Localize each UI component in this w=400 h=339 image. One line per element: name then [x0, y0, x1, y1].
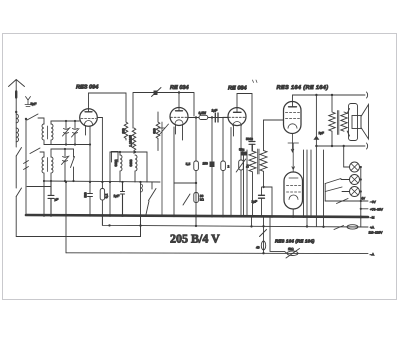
wire plate feed x102	[101, 118, 103, 183]
wire IF2 top	[110, 151, 147, 153]
svg-text:1µF: 1µF	[252, 199, 258, 203]
lamp feed wire	[343, 146, 345, 167]
svg-text:RE 034: RE 034	[170, 85, 190, 91]
svg-text:–M: –M	[370, 216, 375, 220]
cap C5 on y182	[88, 182, 93, 215]
speaker transformer right winding	[341, 112, 347, 131]
bus junction dots	[65, 214, 68, 217]
coil BF2 primary	[42, 157, 44, 181]
core BF1	[47, 126, 49, 139]
wire 4V	[325, 200, 368, 202]
wire bottom band1	[44, 144, 90, 146]
resistor R on y182	[101, 182, 103, 189]
tube RES094 plate wire	[97, 117, 102, 119]
variable capacitor C3	[62, 149, 70, 181]
wire band2 top	[51, 148, 65, 150]
RE084 top cap wire	[237, 94, 252, 142]
wire sec to x272	[262, 186, 264, 188]
svg-text:RES 094: RES 094	[76, 85, 99, 91]
output terminal top	[367, 92, 368, 98]
coil BF1 primary	[42, 124, 44, 145]
x196 below bus	[195, 216, 197, 226]
tube RES094	[80, 109, 98, 127]
wire x251 below bus	[251, 216, 253, 227]
svg-text:300: 300	[122, 128, 126, 134]
IF2 coil W5	[135, 155, 137, 182]
arrester	[25, 97, 31, 107]
svg-text:0603: 0603	[129, 159, 133, 166]
switch lamp2	[325, 179, 341, 184]
svg-text:RES 164 (RE 164): RES 164 (RE 164)	[275, 239, 315, 244]
wire x212 down	[211, 118, 213, 162]
coil antenna L1	[16, 114, 18, 142]
wire	[15, 156, 17, 188]
tube2 top lead	[288, 143, 299, 172]
svg-text:+A: +A	[370, 225, 375, 229]
svg-text:µF: µF	[55, 198, 59, 202]
RE034 top wire	[178, 93, 180, 111]
wire +75	[361, 208, 368, 210]
svg-text:150: 150	[203, 162, 209, 166]
tube RE084	[228, 108, 246, 126]
wire x196	[195, 118, 197, 162]
tube RE034	[170, 108, 188, 126]
RE034 cathode lead	[176, 125, 183, 141]
wire top of caps	[51, 120, 80, 122]
speaker transformer left winding	[329, 95, 335, 146]
wire band2 bottom	[50, 180, 52, 182]
wire y146	[316, 145, 365, 147]
switch S2	[16, 188, 21, 197]
trimmer cap on grid wire	[154, 91, 158, 96]
wire antenna down	[15, 112, 17, 147]
tube RES094 top cap wire	[89, 93, 127, 122]
output terminal bottom	[367, 143, 368, 149]
svg-text:40: 40	[256, 245, 260, 249]
branch x263 down	[263, 216, 265, 253]
wire y226	[102, 215, 368, 227]
svg-text:1kΩ: 1kΩ	[288, 247, 294, 251]
resistor on x223	[221, 161, 226, 171]
svg-text:5µF: 5µF	[31, 102, 37, 106]
svg-text:0,2: 0,2	[105, 194, 109, 199]
svg-text:1µF: 1µF	[212, 108, 218, 112]
tube RES164	[284, 102, 302, 134]
lamp 3	[350, 187, 360, 197]
wire x66 down	[65, 182, 67, 253]
fuse on wire C	[287, 251, 298, 255]
svg-text:0,5M: 0,5M	[199, 111, 207, 115]
main bus	[26, 215, 368, 217]
svg-text:RE 084: RE 084	[228, 86, 248, 92]
wire vertical x26	[25, 119, 27, 215]
x247 vertical	[246, 150, 248, 216]
lamp 1	[350, 162, 360, 172]
band switch box	[112, 152, 119, 163]
svg-text:+75–35V: +75–35V	[370, 207, 384, 211]
wire left down to bottom rail	[16, 197, 140, 237]
switch band1	[27, 114, 44, 124]
band switch wipers on x26	[24, 161, 29, 170]
svg-text:205 B/4 V: 205 B/4 V	[170, 232, 220, 246]
wire x270 to fuse	[270, 216, 287, 253]
RE084 cathode	[234, 125, 242, 160]
switch band2	[30, 148, 44, 157]
svg-text:30µ: 30µ	[239, 147, 244, 151]
resistor 5,5 on x196	[194, 161, 199, 171]
switch lamp3	[325, 187, 342, 192]
switch on x152	[146, 182, 156, 215]
IF winding W2	[132, 128, 136, 154]
svg-text:~0V: ~0V	[370, 200, 377, 204]
svg-text:5000: 5000	[246, 137, 253, 141]
frame border	[3, 34, 397, 300]
lamp bus vertical	[360, 167, 362, 227]
grid wire RE034	[133, 93, 194, 129]
AF transformer primary	[249, 144, 256, 215]
variable capacitor C1	[63, 121, 71, 145]
RES164 grid wire	[264, 119, 284, 121]
wire x174	[173, 127, 175, 215]
cap 150 on x212	[210, 162, 215, 168]
svg-text:110–220V: 110–220V	[369, 230, 384, 234]
resistor-30 lower	[174, 182, 196, 184]
lamp 2	[350, 175, 360, 185]
svg-text:500: 500	[84, 192, 88, 198]
BF2 primary lead to bus	[43, 181, 45, 216]
wire y182	[27, 181, 160, 187]
svg-text:2µF: 2µF	[319, 131, 325, 135]
coil BF1 secondary	[51, 121, 53, 145]
switch+fuse on wire226 right	[334, 226, 344, 230]
coil on x140.5	[140, 182, 142, 237]
wire x110	[109, 152, 111, 215]
svg-text:4V: 4V	[361, 197, 366, 201]
wire C y253	[66, 252, 368, 255]
verticals x307 x311 x323	[303, 150, 305, 215]
svg-text:–A: –A	[370, 252, 375, 256]
capacitor 1uF coupling	[215, 113, 218, 122]
variable resistor cathode	[239, 160, 244, 170]
wire x147	[146, 152, 148, 182]
speaker wire loop	[347, 109, 349, 137]
node	[25, 118, 27, 120]
svg-text:5,5: 5,5	[186, 162, 191, 166]
antenna	[9, 80, 25, 113]
cap 2uF on x316	[315, 95, 317, 227]
node ant junction	[15, 111, 17, 113]
cap 1uF ps	[259, 195, 265, 198]
IF winding W3	[156, 112, 160, 151]
switch contact band2	[71, 149, 75, 181]
core BF2	[47, 158, 49, 172]
coil BF2 secondary	[51, 149, 53, 181]
tube2 bottom lead	[292, 209, 294, 215]
cathode cap on x51	[48, 181, 54, 216]
variable cap left of RE034	[159, 122, 169, 215]
speaker transformer core	[337, 111, 338, 135]
RE084 grid wire	[223, 117, 228, 161]
dots wire y182	[89, 181, 91, 183]
svg-text:RES 164 (RE 164): RES 164 (RE 164)	[277, 84, 329, 91]
svg-text:030: 030	[153, 128, 157, 134]
IF transformer winding W1 300	[124, 122, 128, 140]
switch S1	[16, 148, 21, 157]
svg-text:1,10185: 1,10185	[129, 135, 133, 147]
RES164 bottom lead	[291, 134, 294, 153]
wire x231	[230, 128, 232, 216]
svg-text:0302: 0302	[114, 159, 118, 166]
x140 below bus	[140, 216, 142, 237]
variable capacitor C2	[72, 121, 80, 145]
tube2 RES164	[284, 172, 303, 209]
switch vertical	[324, 184, 326, 202]
resistor 0,5M	[199, 115, 208, 119]
svg-text:2: 2	[228, 165, 230, 169]
speaker	[352, 116, 361, 129]
IF2 coil W4	[120, 152, 122, 182]
RE034 plate wire	[188, 117, 199, 119]
tube RES094 bottom leads	[86, 126, 91, 183]
svg-text:kΩ: kΩ	[200, 198, 205, 202]
RES164 top wire to speaker	[293, 95, 366, 107]
AF transformer core	[258, 149, 259, 174]
cap 5000	[249, 142, 255, 145]
AF transformer secondary	[260, 120, 267, 187]
svg-text:1µF: 1µF	[114, 194, 120, 198]
